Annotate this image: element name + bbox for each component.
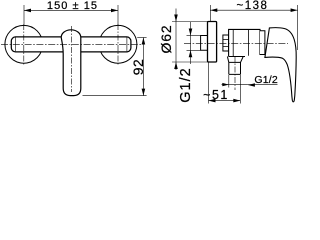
svg-text:92: 92: [130, 59, 146, 76]
nut seam left: [14, 38, 16, 52]
nut seam right: [126, 38, 128, 52]
dim 150±15: extension line left: [23, 5, 25, 25]
dim 92: arrow top: [142, 38, 146, 45]
centerline vertical body axis: [71, 26, 73, 92]
dim Ø62: arrow top (outside, pointing down): [174, 15, 178, 22]
svg-text:~138: ~138: [237, 0, 269, 12]
svg-text:Ø62: Ø62: [158, 25, 174, 54]
dim ~51: extension line right: [239, 88, 241, 104]
dim G1/2 right: dimension line with arrows: [222, 84, 248, 86]
dim G1/2 right: leader underline: [248, 84, 278, 86]
dim 92: extension line bottom: [83, 95, 147, 97]
connecting tube / union nuts capsule: [11, 37, 131, 52]
outlet collar: [227, 57, 243, 63]
dim G1/2 left: arrow top (outside, pointing down): [189, 29, 193, 36]
centerline vertical left circle: [23, 24, 25, 65]
svg-text:G1/2: G1/2: [254, 74, 278, 86]
dim 150±15: extension line right: [117, 5, 119, 25]
dim Ø62: extension line bottom: [172, 61, 209, 63]
dim 92: extension line top: [137, 37, 146, 39]
lever handle: [265, 28, 296, 102]
dim 150±15: dimension line: [24, 9, 118, 11]
dim G1/2 left: arrow bottom (outside, pointing up): [189, 50, 193, 57]
dim ~138: arrow left: [210, 8, 217, 12]
escutcheon circle left: [5, 25, 43, 63]
body bottom edge: [229, 56, 245, 58]
dim ~51: arrow left: [209, 99, 216, 103]
dim ~138: extension line left: [209, 5, 211, 21]
dim G1/2 left: dimension line: [190, 22, 192, 64]
svg-text:G1/2: G1/2: [178, 67, 194, 102]
dim ~138: extension line right: [297, 5, 299, 50]
dim G1/2 right: extension line right (nipple right): [240, 75, 242, 88]
centerline vertical outlet axis: [234, 56, 236, 90]
centerline vertical right circle: [117, 24, 119, 65]
dim ~138: arrow right: [291, 8, 298, 12]
wall escutcheon disc: [208, 22, 217, 63]
dim G1/2 right: extension line left (nipple left): [228, 75, 230, 88]
escutcheon circle right: [99, 25, 137, 63]
inlet stub: [201, 36, 209, 51]
hex connector nut: [223, 35, 229, 51]
svg-text:~51: ~51: [203, 88, 229, 102]
dim 150±15: arrow left: [24, 9, 31, 13]
body seam lines: [233, 29, 248, 56]
dim Ø62: dimension line: [175, 9, 177, 71]
dim ~138: dimension line: [210, 9, 297, 11]
dim G1/2 left: extension line bottom: [187, 49, 201, 51]
dim G1/2 left: extension line top: [187, 35, 201, 37]
dim G1/2 right: arrow left (pointing right): [222, 83, 229, 86]
dim ~51: dimension line: [209, 100, 241, 102]
dim ~51: extension line left (wall plane): [208, 63, 210, 104]
svg-text:150 ± 15: 150 ± 15: [47, 0, 98, 12]
centerline horizontal front view: [1, 43, 141, 45]
dim 92: arrow bottom: [142, 89, 146, 96]
outlet nipple G1/2: [229, 62, 241, 74]
dim Ø62: arrow bottom (outside, pointing up): [174, 62, 178, 69]
dim ~51: arrow right: [233, 99, 240, 103]
dim Ø62: extension line top: [172, 21, 209, 23]
dim 150±15: arrow right: [111, 9, 118, 13]
handle neck: [260, 31, 265, 55]
dim G1/2 right: leader arrow (pointing left): [248, 83, 255, 87]
dim 92: dimension line: [142, 38, 144, 96]
centerline horizontal side view: [184, 42, 288, 44]
mixer body: dome + lower U as one piece: [61, 30, 81, 96]
valve body: [229, 29, 260, 56]
